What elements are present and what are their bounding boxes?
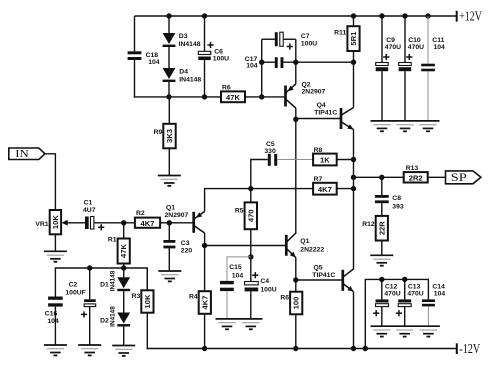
diode D2 xyxy=(100,306,130,327)
capacitor C14 xyxy=(422,283,445,306)
node C10 top xyxy=(402,13,407,18)
svg-text:220: 220 xyxy=(181,248,193,255)
node Q3 collector xyxy=(202,243,207,248)
wire R3 bottom xyxy=(146,313,148,350)
svg-text:Q4: Q4 xyxy=(317,102,326,109)
resistor R12 xyxy=(362,216,388,241)
wire R7 right xyxy=(337,188,354,190)
capacitor C6 xyxy=(198,42,229,63)
svg-text:C2: C2 xyxy=(69,282,78,289)
capacitor C3 xyxy=(163,240,192,255)
ground under R12 xyxy=(370,255,393,265)
wire C16 bottom xyxy=(54,307,56,345)
svg-text:-12V: -12V xyxy=(459,341,480,356)
resistor R1 xyxy=(108,237,130,264)
power -12V xyxy=(457,341,481,356)
svg-text:R8: R8 xyxy=(314,147,323,154)
transistor Q4 xyxy=(314,102,353,129)
wire output row xyxy=(354,176,404,178)
wire R4 top xyxy=(204,246,206,292)
wire left branch lower xyxy=(134,60,221,98)
wire R8 right xyxy=(337,159,354,161)
wire C14 bottom xyxy=(427,306,429,326)
wire R13 to SP xyxy=(428,176,446,178)
wire Q2 emitter up xyxy=(295,62,297,84)
resistor R9 xyxy=(154,124,176,149)
capacitor C10 xyxy=(399,37,424,71)
svg-text:104: 104 xyxy=(434,44,446,51)
wire Q3 collector to Q1 base xyxy=(205,245,287,247)
wire to C7 left xyxy=(262,38,275,40)
wire R6b bottom xyxy=(295,314,297,348)
svg-text:Q1: Q1 xyxy=(300,238,309,245)
svg-text:C8: C8 xyxy=(392,195,401,202)
wire C10 bottom xyxy=(404,71,406,121)
svg-text:Q2: Q2 xyxy=(302,81,311,88)
svg-text:100: 100 xyxy=(292,297,301,310)
wire D1 top xyxy=(123,268,125,277)
wire IN to VR1 xyxy=(45,154,55,210)
connector SP xyxy=(446,171,481,184)
svg-text:1K: 1K xyxy=(320,156,330,165)
capacitor C15 xyxy=(220,264,243,291)
wire D1-D2 xyxy=(123,291,125,312)
wire R3 top xyxy=(146,268,148,290)
svg-text:2N2907: 2N2907 xyxy=(302,88,326,95)
node R11 top rail xyxy=(351,13,356,18)
svg-text:2N2907: 2N2907 xyxy=(165,212,189,219)
wire C7 right xyxy=(283,39,296,62)
svg-text:C13: C13 xyxy=(408,283,421,290)
node Q2 base branch xyxy=(259,94,264,99)
svg-text:330: 330 xyxy=(264,148,276,155)
svg-text:C7: C7 xyxy=(301,33,310,40)
wire C9 top xyxy=(381,16,383,63)
node C12 block rail xyxy=(363,346,368,351)
node Q2 emitter xyxy=(293,60,298,65)
svg-text:104: 104 xyxy=(434,291,446,298)
wire Q3 collector down xyxy=(204,233,206,246)
svg-text:R6: R6 xyxy=(222,84,231,91)
wire C13 bottom xyxy=(404,307,406,327)
wire VR1 bottom xyxy=(54,234,56,251)
svg-text:IN4148: IN4148 xyxy=(109,270,116,291)
wire to Q4 base xyxy=(296,118,341,120)
node Q5 emitter rail xyxy=(351,346,356,351)
svg-text:47K: 47K xyxy=(119,244,128,258)
wire feedback rail xyxy=(55,268,147,297)
wire C5 branch xyxy=(251,160,268,203)
wire C11 bottom xyxy=(427,71,429,121)
svg-text:C18: C18 xyxy=(146,52,159,59)
wire D3-D4 xyxy=(168,47,170,68)
ground under C9 C10 C11 xyxy=(371,121,440,131)
svg-text:IN4148: IN4148 xyxy=(179,77,201,84)
wire C11 top xyxy=(427,16,429,64)
diode D1 xyxy=(100,270,130,291)
node C5 R5 junction xyxy=(248,186,253,191)
wire C12 bottom xyxy=(381,307,383,327)
svg-text:R2: R2 xyxy=(136,210,145,217)
capacitor C5 xyxy=(264,141,277,166)
node output xyxy=(351,175,356,180)
svg-text:R5: R5 xyxy=(235,207,244,214)
resistor R6b xyxy=(280,292,302,315)
wire C13 top xyxy=(404,279,406,299)
ground under C15 C4 xyxy=(216,319,263,329)
svg-text:C12: C12 xyxy=(385,283,398,290)
node R1 top xyxy=(121,220,126,225)
wire C17 right xyxy=(283,61,295,63)
wire Q1 emitter down xyxy=(295,258,297,292)
wire C17 branch vertical xyxy=(261,39,263,97)
capacitor C17 xyxy=(245,56,284,70)
node Q4 base xyxy=(293,117,298,122)
node Q5 base branch xyxy=(293,277,298,282)
capacitor C8 xyxy=(375,195,404,210)
wire C12 block xyxy=(365,279,428,348)
svg-text:C6: C6 xyxy=(214,48,223,55)
capacitor C18 xyxy=(128,51,160,66)
svg-text:R11: R11 xyxy=(334,30,346,37)
svg-text:5R1: 5R1 xyxy=(349,31,358,46)
svg-text:+12V: +12V xyxy=(459,8,482,23)
svg-text:100U: 100U xyxy=(301,41,317,48)
wire R9 bottom xyxy=(168,148,170,175)
wire C8 to R12 xyxy=(381,203,383,216)
node C11 top xyxy=(425,13,430,18)
svg-text:R6: R6 xyxy=(280,294,289,301)
resistor R5 xyxy=(235,202,257,229)
svg-text:C10: C10 xyxy=(408,37,421,44)
svg-text:4K7: 4K7 xyxy=(318,185,332,194)
svg-text:C11: C11 xyxy=(432,37,444,44)
node R8 right xyxy=(351,157,356,162)
wire C1 to R2 xyxy=(94,222,135,224)
svg-text:R7: R7 xyxy=(314,176,323,183)
wire D4 bottom xyxy=(168,82,170,97)
node R4 rail xyxy=(202,346,207,351)
svg-text:R3: R3 xyxy=(132,293,141,300)
wire R9 top xyxy=(168,97,170,124)
svg-text:TIP41C: TIP41C xyxy=(314,110,337,117)
capacitor C11 xyxy=(421,37,445,71)
resistor R7 xyxy=(313,176,337,194)
svg-text:D2: D2 xyxy=(100,317,109,324)
svg-text:IN4148: IN4148 xyxy=(109,306,116,327)
resistor R2 xyxy=(135,210,160,228)
capacitor C7 xyxy=(275,32,317,49)
svg-text:2R2: 2R2 xyxy=(409,173,423,182)
svg-text:100U: 100U xyxy=(260,286,276,293)
wire C2 bottom xyxy=(89,307,91,345)
svg-text:100UF: 100UF xyxy=(65,290,85,297)
svg-text:C9: C9 xyxy=(386,37,395,44)
ground under C12 C13 C14 xyxy=(371,326,440,336)
connector IN xyxy=(9,148,45,160)
wire Q3 emitter up xyxy=(205,189,314,212)
wire R6 to Q2 base xyxy=(245,96,286,98)
wire C12 top xyxy=(381,279,383,299)
capacitor C16 xyxy=(45,297,63,325)
power +12V xyxy=(457,8,482,23)
node C9 top xyxy=(379,13,384,18)
wire D2 bottom xyxy=(123,327,125,346)
wire C9 bottom xyxy=(381,71,383,121)
wire C4 bottom xyxy=(250,291,252,319)
wire to C17 left xyxy=(262,61,275,63)
svg-text:C1: C1 xyxy=(84,200,93,207)
resistor R13 xyxy=(404,165,428,183)
capacitor C4 xyxy=(245,272,277,293)
wire R5 bottom xyxy=(250,229,252,281)
svg-text:100U: 100U xyxy=(213,56,229,63)
svg-text:4U7: 4U7 xyxy=(83,207,96,214)
potentiometer VR1 xyxy=(35,210,85,234)
wire R4 bottom xyxy=(204,314,206,349)
svg-text:D4: D4 xyxy=(179,68,188,75)
wire C15 branch xyxy=(227,257,251,281)
resistor R4 xyxy=(189,291,211,314)
ground under C3 xyxy=(158,271,181,281)
ground under C16 xyxy=(44,345,67,355)
wire Q5 emitter down xyxy=(353,292,355,349)
svg-text:D3: D3 xyxy=(179,33,188,40)
svg-text:TIP41C: TIP41C xyxy=(312,272,335,279)
node D1 top xyxy=(121,265,126,270)
svg-text:Q5: Q5 xyxy=(314,264,323,271)
svg-text:393: 393 xyxy=(392,203,404,210)
svg-text:VR1: VR1 xyxy=(35,221,48,228)
diode D4 xyxy=(163,68,202,84)
ground under R9 xyxy=(158,176,181,186)
svg-text:3K3: 3K3 xyxy=(165,129,174,143)
node D3 top xyxy=(166,13,171,18)
svg-text:470: 470 xyxy=(246,209,255,222)
node C3 top xyxy=(167,220,172,225)
svg-text:4K7: 4K7 xyxy=(200,296,209,310)
ground under C2 xyxy=(78,345,101,355)
resistor R8 xyxy=(313,147,337,165)
svg-text:470U: 470U xyxy=(408,44,424,51)
transistor Q1 xyxy=(286,233,324,257)
svg-text:104: 104 xyxy=(246,63,258,70)
capacitor C12 xyxy=(373,283,401,316)
wire C10 top xyxy=(404,16,406,63)
ground under VR1 xyxy=(44,251,67,261)
resistor R3 xyxy=(132,290,154,312)
svg-text:R1: R1 xyxy=(108,237,117,244)
wire R1 bottom xyxy=(123,264,125,269)
wire left branch upper xyxy=(134,16,136,51)
wire R11 top xyxy=(353,16,355,26)
resistor R11 xyxy=(334,26,359,51)
wire Q4 emitter rail xyxy=(353,130,355,270)
wire R11 bottom xyxy=(353,51,355,62)
node C12 top xyxy=(379,277,384,282)
svg-text:47K: 47K xyxy=(226,93,240,102)
node C8 top xyxy=(379,175,384,180)
wire C6 top xyxy=(204,16,206,51)
node C2 top xyxy=(87,265,92,270)
svg-text:R4: R4 xyxy=(189,294,198,301)
wire Q2 collector down xyxy=(295,108,297,234)
svg-text:D1: D1 xyxy=(100,281,109,288)
svg-text:Q1: Q1 xyxy=(166,205,175,212)
wire R1 top xyxy=(123,223,125,239)
capacitor C9 xyxy=(376,37,401,71)
wire Q4 collector up xyxy=(353,62,355,107)
wire C6 bottom xyxy=(204,60,206,97)
svg-text:104: 104 xyxy=(47,318,59,325)
capacitor C1 xyxy=(83,200,104,231)
svg-text:470U: 470U xyxy=(385,44,401,51)
wire to Q5 base xyxy=(296,279,343,281)
svg-text:104: 104 xyxy=(148,59,160,66)
node R7 right xyxy=(351,186,356,191)
svg-text:4K7: 4K7 xyxy=(141,219,155,228)
node C13 top xyxy=(402,277,407,282)
svg-text:C14: C14 xyxy=(432,283,445,290)
svg-text:2N2222: 2N2222 xyxy=(300,247,324,254)
node D4 bottom xyxy=(166,94,171,99)
node C6 bottom xyxy=(202,94,207,99)
ground under D2 xyxy=(112,346,135,356)
wire C2 top xyxy=(89,268,91,299)
svg-text:22R: 22R xyxy=(377,221,386,235)
wire C3 bottom xyxy=(168,248,170,271)
wire C15 bottom xyxy=(226,291,228,319)
wire R12 bottom xyxy=(381,241,383,256)
capacitor C2 xyxy=(65,282,95,318)
transistor Q2 xyxy=(286,81,326,108)
svg-text:C15: C15 xyxy=(229,264,242,271)
svg-text:C3: C3 xyxy=(181,240,190,247)
svg-text:470U: 470U xyxy=(384,291,400,298)
wire D3 top xyxy=(168,16,170,33)
wire R2 to Q3 base xyxy=(160,222,194,224)
wire +12V top rail xyxy=(135,15,457,17)
wire -12V bottom rail xyxy=(147,348,457,350)
wire emitter node to R11 xyxy=(296,61,354,63)
capacitor C13 xyxy=(396,283,424,316)
svg-text:IN4148: IN4148 xyxy=(179,41,201,48)
wire C3 top xyxy=(168,223,170,240)
svg-text:470U: 470U xyxy=(407,291,423,298)
svg-text:C4: C4 xyxy=(260,278,269,285)
transistor Q3 xyxy=(165,205,205,233)
resistor R6 xyxy=(221,84,245,102)
svg-text:C5: C5 xyxy=(266,141,275,148)
node C6 top xyxy=(202,13,207,18)
node C17 left xyxy=(259,60,264,65)
diode D3 xyxy=(163,33,201,48)
svg-text:104: 104 xyxy=(232,273,244,280)
wire C5 to R8 xyxy=(277,159,313,161)
transistor Q5 xyxy=(312,264,353,291)
svg-text:R9: R9 xyxy=(154,129,163,136)
svg-text:10K: 10K xyxy=(143,294,152,308)
node R11 bottom xyxy=(351,60,356,65)
svg-text:IN: IN xyxy=(15,148,29,160)
node R5 C15 C4 xyxy=(248,254,253,259)
svg-text:R13: R13 xyxy=(406,165,419,172)
svg-text:SP: SP xyxy=(451,172,467,184)
svg-text:R12: R12 xyxy=(362,221,375,228)
svg-text:10K: 10K xyxy=(51,215,60,229)
wire C8 top xyxy=(381,177,383,195)
node R6b rail xyxy=(293,346,298,351)
